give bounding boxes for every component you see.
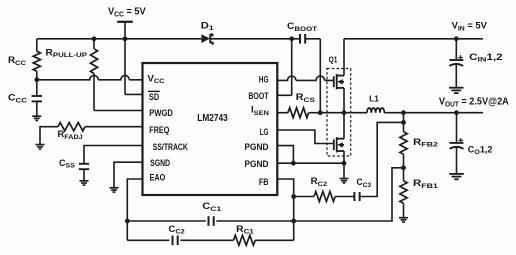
resistor RC1 (234, 235, 256, 245)
svg-text:SD: SD (149, 92, 159, 102)
ground CIN (449, 88, 464, 93)
wire VIN rail (344, 38, 483, 40)
junction FB/RC2 row (291, 194, 296, 199)
junction SW Q1 source Q2 drain (342, 110, 347, 115)
wire LG pin to Q2 gate (277, 130, 334, 144)
junction VOUT/CO (454, 110, 459, 115)
wire CC2 to RC1 (180, 239, 233, 241)
wire RFB midpoint (403, 154, 405, 181)
wire RFADJ left to ground (40, 127, 58, 145)
capacitor CSS (79, 164, 89, 169)
ground CSS (80, 181, 89, 185)
wire CIN top lead (455, 39, 457, 59)
resistor RC2 (314, 192, 335, 202)
capacitor CO1,2 (polarized) (450, 143, 464, 149)
svg-text:L1: L1 (369, 94, 380, 103)
diode D1 (schottky) (201, 34, 212, 45)
wire VCC rail down to SD (124, 39, 126, 95)
wire VCC stub down (124, 22, 126, 39)
svg-text:PGND: PGND (245, 142, 269, 152)
wire to PWGD pin (94, 110, 143, 112)
wire ISEN pin to RCS (277, 112, 288, 114)
svg-text:PGND: PGND (245, 159, 269, 169)
svg-text:FB: FB (259, 177, 269, 187)
svg-text:BOOT: BOOT (248, 91, 269, 101)
wire HG pin to Q1 gate with hops (277, 76, 334, 80)
wire CO bottom lead (456, 147, 458, 174)
wire EAO pin down (127, 179, 142, 240)
wire top rail VCC to D1 anode (37, 38, 202, 40)
wire CO top lead (456, 113, 458, 142)
resistor RPULL-UP (90, 49, 97, 74)
svg-text:SGND: SGND (150, 158, 170, 168)
svg-text:LM2743: LM2743 (197, 113, 228, 124)
capacitor CC3 (354, 192, 359, 201)
junction EAO/CC1 row (125, 219, 130, 224)
junction VOUT/RFB2 (401, 110, 406, 115)
wire RFB2 top lead (403, 113, 405, 132)
junction VIN/CIN (454, 36, 459, 41)
transistor Q2 (low-side NMOS) (334, 137, 344, 152)
resistor RFB1 (400, 181, 407, 204)
junction RPULL-UP top (92, 36, 97, 41)
ground RFADJ (36, 145, 45, 149)
wire PGND2 pin to Q2 source (277, 162, 344, 164)
wire CC2 row left (127, 239, 169, 241)
junction Q2 source/PGND (342, 161, 347, 166)
junction RCC/CCC/VCC-pin node (34, 77, 39, 82)
ground CO (449, 174, 464, 179)
capacitor CC2 (173, 236, 178, 246)
ground CCC (32, 116, 41, 120)
ground SGND (110, 188, 119, 192)
VCC supply bar (117, 21, 133, 23)
wire Q1 source to SW node (343, 88, 345, 113)
wire D1 cathode to CBOOT (211, 38, 300, 40)
svg-text:HG: HG (259, 74, 269, 84)
wire RC2 to CC3 (335, 196, 354, 198)
resistor RCS (288, 108, 309, 118)
wire CC1 row left (127, 220, 205, 222)
svg-text:FREQ: FREQ (149, 125, 169, 135)
wire FB pin down (277, 179, 293, 240)
svg-text:SS/TRACK: SS/TRACK (153, 142, 188, 152)
ground power stage (340, 179, 349, 183)
wire SGND pin to ground (114, 162, 143, 188)
svg-text:EAO: EAO (150, 172, 166, 182)
overline SD (148, 90, 160, 92)
wire CBOOT right vertical down to SW node (319, 39, 321, 113)
ground RFB1 (399, 218, 408, 222)
wire CBOOT to SW drop (305, 38, 320, 40)
wire RFB1 to ground (403, 203, 405, 217)
svg-text:VIN = 5V: VIN = 5V (452, 20, 488, 33)
wire FB node to RC2 (294, 196, 314, 198)
wire BOOT vertical (291, 39, 293, 96)
wire RCS to SW node (309, 112, 321, 114)
wire CC3 up to RFB2 top node (360, 122, 404, 196)
wire RC1 to FB vertical (255, 239, 294, 241)
junction CBOOT/BOOT node (289, 36, 294, 41)
svg-text:Q1: Q1 (329, 55, 338, 64)
wire SS/TRACK pin to CSS (84, 146, 143, 164)
junction VCC rail (123, 36, 128, 41)
svg-text:VCC = 5V: VCC = 5V (108, 7, 146, 19)
wire RCC node to VCC pin with hops (37, 75, 143, 79)
wire BOOT pin (277, 94, 291, 96)
wire RPULL-UP bottom lead down (93, 74, 95, 111)
junction SW/RCS/CBOOT (318, 110, 323, 115)
wire to SD pin (125, 93, 143, 95)
wire VOUT rail (384, 112, 483, 114)
wire PGND1 pin (277, 146, 293, 164)
wire Q2 source to ground (343, 151, 345, 179)
capacitor CC1 (209, 216, 214, 226)
wire RPULL-UP top lead (93, 39, 95, 49)
wire CCC to ground (36, 101, 38, 116)
transistor Q1 (high-side NMOS) (334, 74, 344, 89)
resistor RFADJ (58, 123, 85, 131)
resistor RCC (33, 51, 40, 71)
wire CSS to ground (83, 169, 85, 181)
controller U1 LM2743 body (143, 63, 278, 195)
svg-text:LG: LG (260, 127, 269, 137)
wire Q2 drain to SW node (343, 113, 345, 139)
capacitor CBOOT (300, 34, 305, 44)
resistor RFB2 (400, 132, 407, 155)
wire RFADJ to FREQ pin (85, 126, 143, 128)
wire Q1 drain to VIN rail (343, 39, 345, 76)
capacitor CIN1,2 (polarized) (449, 60, 463, 66)
wire RCC bottom lead (36, 71, 38, 96)
wire FB node to divider midpoint (294, 168, 404, 221)
junction FB/CC1/divider link (291, 219, 296, 224)
wire SW node to L1 (320, 112, 367, 114)
svg-text:PWGD: PWGD (149, 108, 173, 118)
junction RFB2/CC3 branch (401, 120, 406, 125)
capacitor CCC (32, 96, 42, 101)
inductor L1 (367, 108, 384, 113)
wire CC1 row right (216, 220, 293, 222)
junction PGND1/PGND2 (291, 161, 296, 166)
junction divider midpoint (401, 165, 406, 170)
dashed box Q1/Q2 package (327, 69, 351, 157)
wire RCC top lead (36, 39, 38, 52)
wire CIN bottom lead (455, 65, 457, 88)
